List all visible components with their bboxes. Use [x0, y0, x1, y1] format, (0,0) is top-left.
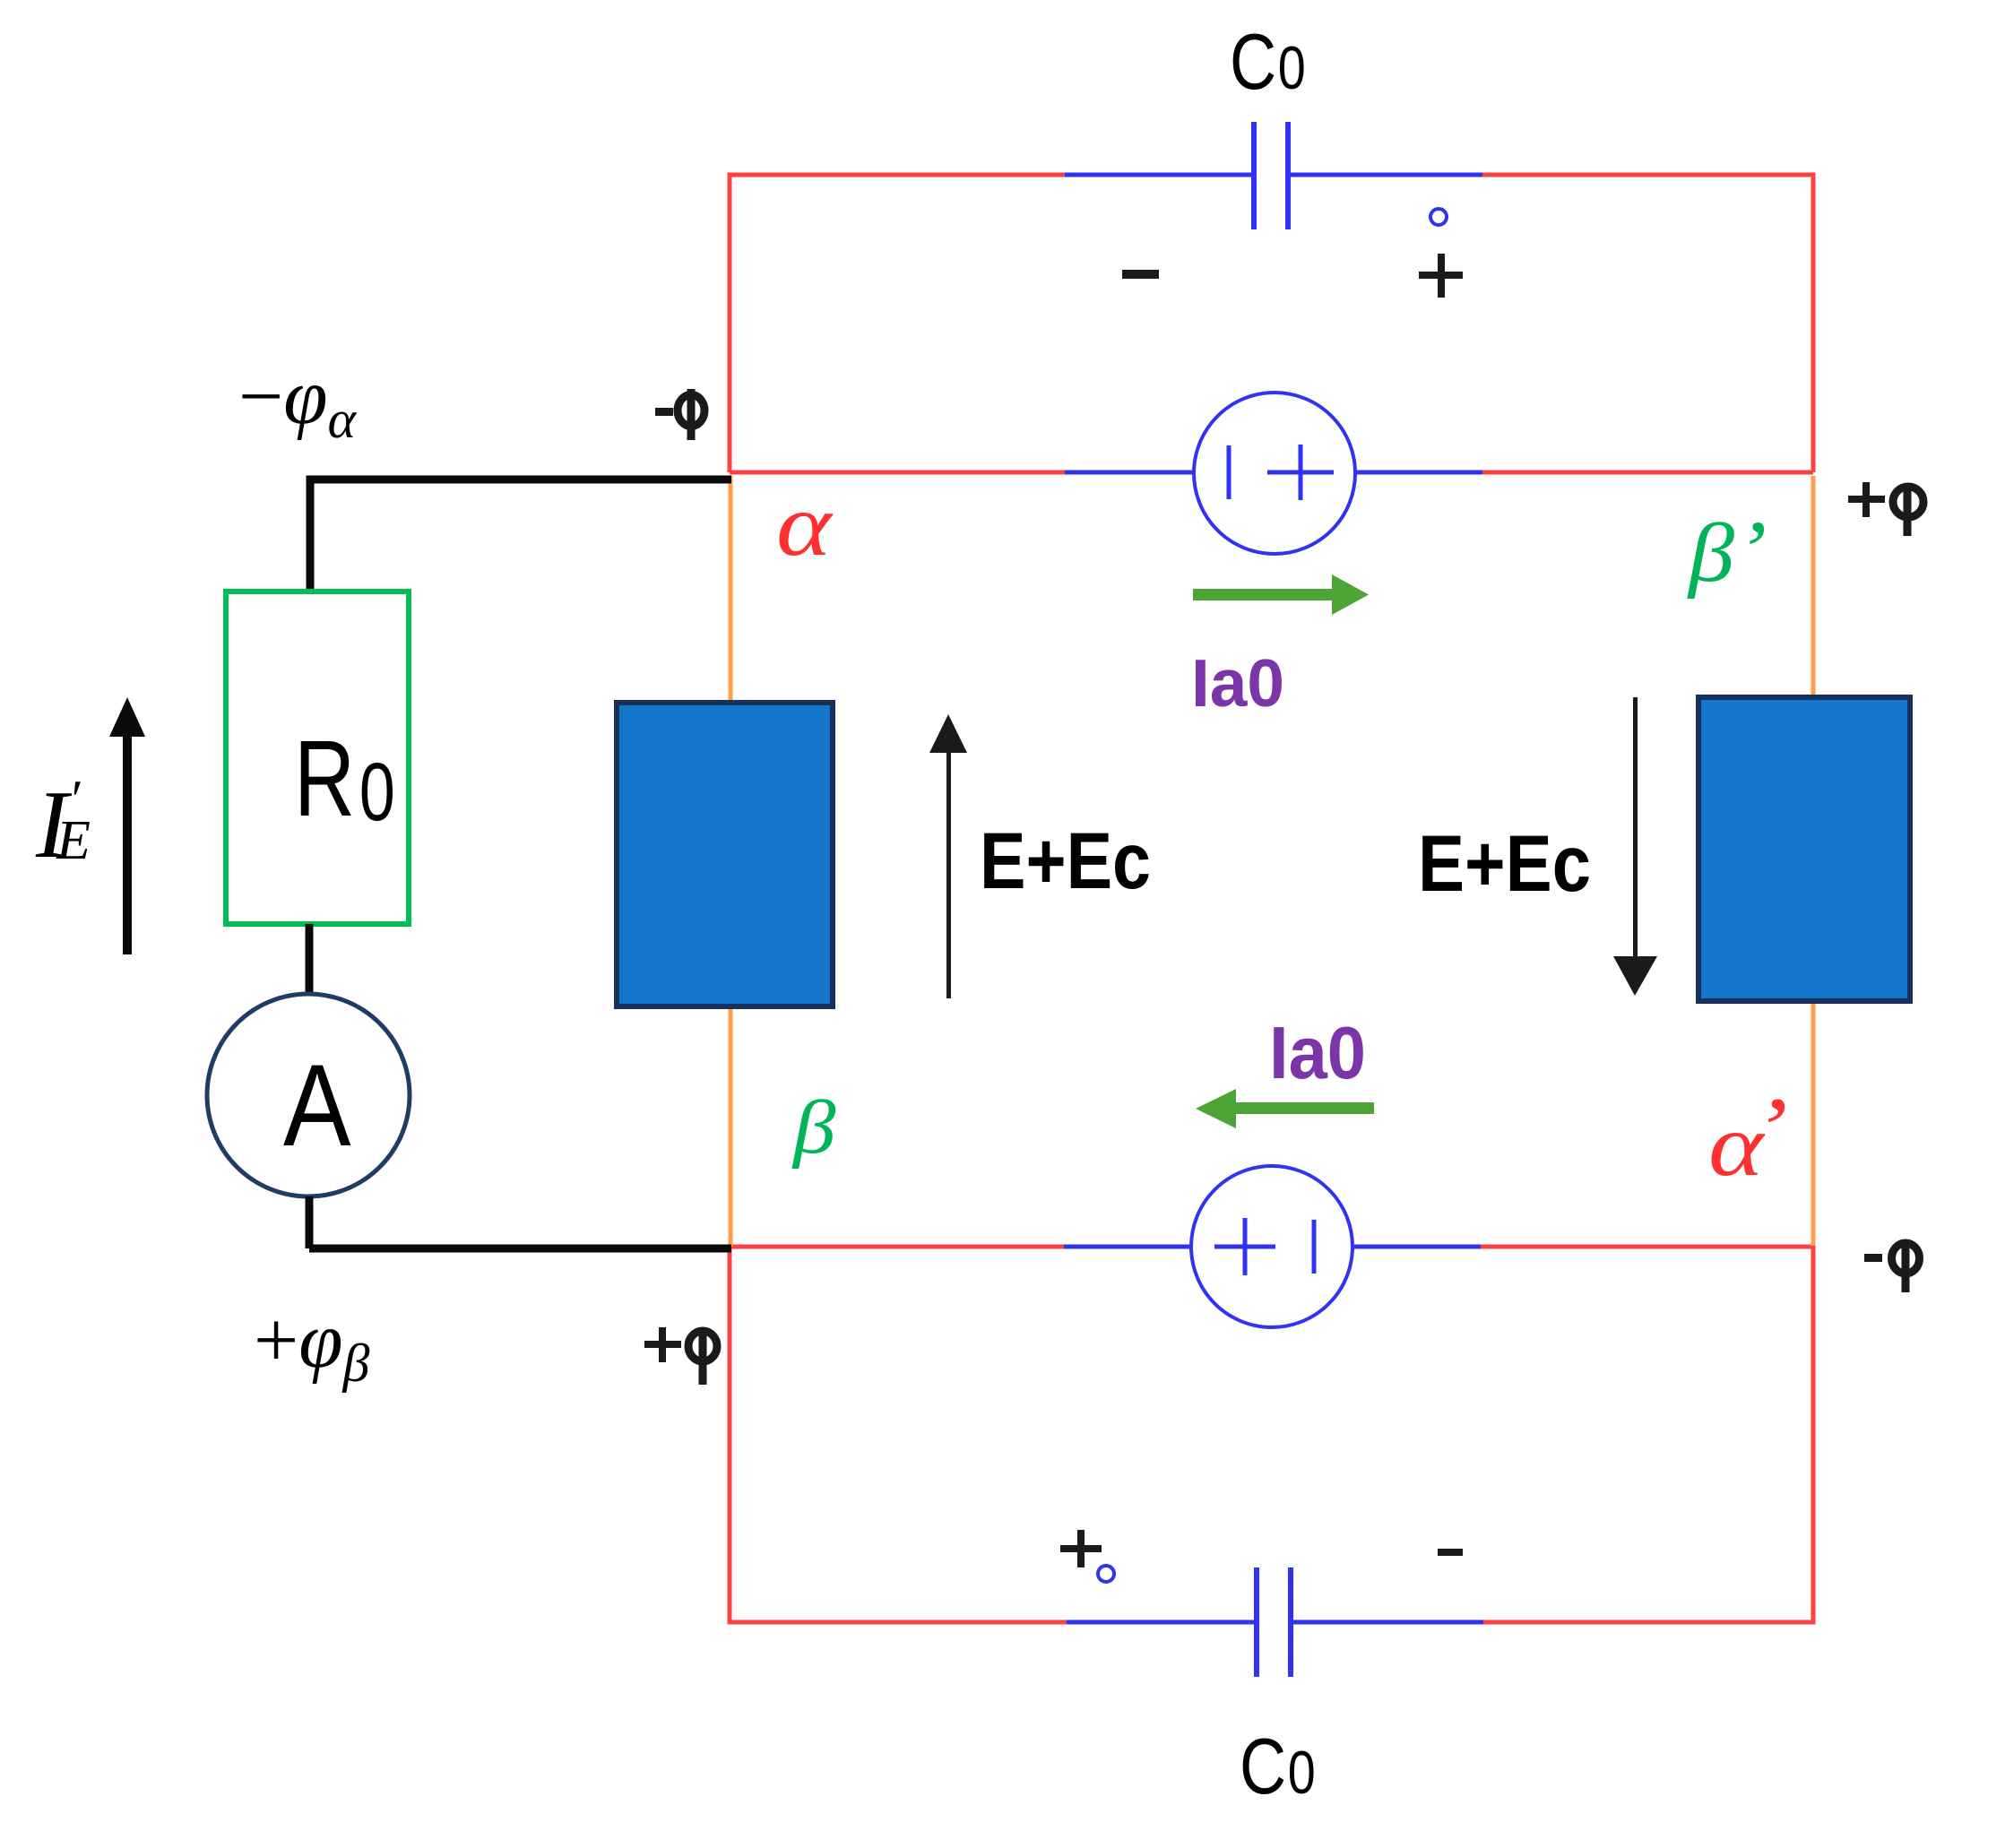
wire bottom-left red	[730, 1247, 1068, 1622]
current arrow Ia0 (bottom, pointing left)	[1196, 1089, 1374, 1128]
polarity plus (top)	[1419, 254, 1463, 298]
wire orange left upper (node alpha)	[729, 476, 733, 705]
wire blue fourth row right	[1352, 1245, 1481, 1249]
small circle marker (bottom)	[1098, 1566, 1114, 1582]
wire second-row left red	[730, 471, 1067, 475]
node label alpha (red)	[776, 475, 833, 574]
small circle marker (top)	[1430, 209, 1447, 225]
current arrow I'E (black, up)	[109, 697, 145, 954]
svg-text:β: β	[791, 1085, 836, 1170]
svg-text:α: α	[776, 475, 833, 574]
wire blue top row right of C0	[1291, 173, 1482, 177]
svg-text:E+Ec: E+Ec	[980, 816, 1151, 905]
wire black bottom (node +phi-beta row)	[309, 1245, 731, 1253]
resistor R0	[226, 592, 409, 924]
label R0	[294, 718, 395, 839]
node label beta' (green)	[1687, 505, 1767, 600]
label C0 (bottom)	[1240, 1723, 1316, 1810]
voltage source V1 (top)	[1194, 393, 1355, 554]
voltage source V2 (bottom)	[1191, 1166, 1353, 1327]
current arrow Ia0 (top, pointing right)	[1193, 574, 1369, 615]
node label -phi (right bottom)	[1864, 1254, 1882, 1262]
svg-text:α’: α’	[1708, 1079, 1788, 1195]
svg-text:A: A	[283, 1041, 351, 1170]
node label beta (green)	[791, 1085, 836, 1170]
wire fourth-row left red	[730, 1245, 1066, 1249]
polarity minus (top)	[1122, 270, 1159, 279]
ammeter A	[207, 994, 410, 1196]
capacitor C0 (top) plates	[1254, 122, 1288, 229]
electrode (right blue rectangle)	[1698, 697, 1910, 1001]
wire black ammeter to bottom row	[306, 1196, 314, 1248]
wire top-left red (node -phi to C0)	[730, 175, 1067, 472]
polarity plus (bottom)	[1060, 1530, 1102, 1567]
label A	[283, 1041, 351, 1170]
node label +phi (right top)	[1848, 482, 1885, 517]
wire blue fourth row left	[1064, 1245, 1193, 1249]
wire second-row right red	[1481, 471, 1813, 475]
wire blue top row left of C0	[1065, 173, 1252, 177]
polarity minus (bottom)	[1438, 1549, 1463, 1556]
wire bottom-right red	[1482, 1246, 1813, 1622]
svg-text:Ia0: Ia0	[1269, 1011, 1366, 1094]
wire orange left lower (node beta)	[729, 1005, 733, 1247]
arrow E+Ec (left, up)	[929, 714, 967, 998]
node label -phi (top, left of alpha wire)	[655, 408, 673, 416]
arrow E+Ec (right, down)	[1613, 697, 1657, 996]
wire black R0 to ammeter	[306, 924, 314, 995]
wire fourth-row right red	[1480, 1245, 1813, 1249]
wire blue second row left	[1065, 471, 1196, 475]
wire orange right lower (node alpha')	[1811, 998, 1816, 1246]
node label alpha' (red)	[1708, 1079, 1788, 1195]
node label +phi (bottom, left of beta wire)	[644, 1327, 681, 1362]
wire blue second row right	[1354, 471, 1482, 475]
svg-text:β’: β’	[1687, 505, 1767, 600]
wire orange right upper (node beta')	[1811, 476, 1816, 700]
svg-text:Ia0: Ia0	[1191, 645, 1284, 721]
wire blue bottom row left of C0	[1067, 1620, 1255, 1625]
wire black top (node -phi row)	[310, 479, 731, 592]
electrode (left blue rectangle)	[617, 703, 833, 1006]
wire top-right red (C0 to +phi corner)	[1482, 175, 1813, 472]
label C0 (top)	[1230, 18, 1306, 106]
wire blue bottom row right of C0	[1292, 1620, 1483, 1625]
capacitor C0 (bottom) plates	[1257, 1567, 1291, 1677]
svg-text:E+Ec: E+Ec	[1418, 818, 1591, 908]
